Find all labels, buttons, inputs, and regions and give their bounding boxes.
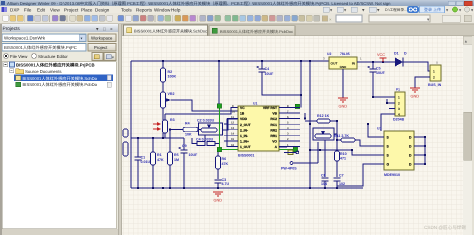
- svg-text:47K: 47K: [157, 158, 164, 162]
- svg-text:C2 0.033U: C2 0.033U: [197, 119, 215, 123]
- svg-text:View: View: [50, 7, 61, 12]
- svg-text:GND: GND: [214, 199, 223, 203]
- svg-text:R2: R2: [168, 70, 173, 74]
- wire VR3 left drop: [324, 140, 326, 177]
- wire green net horizontal: [220, 149, 296, 151]
- svg-text:Tools: Tools: [121, 7, 132, 12]
- svg-text:C9: C9: [182, 144, 187, 148]
- svg-text:100K: 100K: [168, 75, 177, 79]
- wire U3 drain bus vertical: [424, 137, 426, 164]
- svg-text:File: File: [24, 7, 32, 12]
- svg-text:10UF: 10UF: [265, 72, 275, 76]
- svg-text:Design: Design: [95, 7, 110, 12]
- node green marker top-left: [217, 104, 222, 109]
- svg-text:47K: 47K: [222, 162, 229, 166]
- capacitor C4 polarized: [261, 61, 263, 69]
- svg-text:D204B: D204B: [393, 118, 405, 122]
- svg-text:登录 上传: 登录 上传: [424, 7, 441, 12]
- wire U2 IN to diode: [357, 61, 395, 63]
- svg-text:3: 3: [398, 107, 400, 111]
- svg-text:R3: R3: [170, 118, 175, 122]
- svg-text:VO: VO: [272, 139, 277, 143]
- svg-text:R11 2.7K: R11 2.7K: [334, 134, 349, 138]
- svg-text:VR2: VR2: [168, 92, 175, 96]
- wire bottom GND rail: [131, 187, 363, 189]
- potentiometer VR3: [313, 128, 334, 140]
- wire J1 pin2 to ground: [415, 77, 430, 88]
- svg-text:GND: GND: [339, 105, 348, 109]
- svg-text:BISS0001人体红外感应开关模块.PrjPC: BISS0001人体红外感应开关模块.PrjPC: [4, 45, 77, 50]
- resistor R6: [216, 156, 221, 169]
- svg-text:Project: Project: [94, 45, 108, 50]
- U1 right pin stubs with numbers: [279, 107, 300, 109]
- wire feed to green node: [218, 61, 220, 104]
- connector P1 D204B: [395, 92, 405, 116]
- wire U2 GND down: [342, 69, 344, 98]
- component body clipped at left edge (upper): [123, 129, 128, 137]
- wire P1 pin2: [387, 99, 395, 103]
- svg-text:C8: C8: [321, 174, 326, 178]
- svg-text:12: 12: [231, 121, 235, 125]
- resistor R2: [162, 61, 164, 68]
- svg-text:Project: Project: [64, 7, 79, 12]
- svg-text:Source Documents: Source Documents: [25, 69, 62, 74]
- svg-text:16: 16: [231, 143, 235, 147]
- svg-text:102: 102: [339, 182, 345, 186]
- capacitor C3: [215, 180, 222, 183]
- wire VR2 bottom down: [162, 108, 164, 138]
- capacitor C9 polarized: [181, 150, 188, 153]
- resistor R10: [335, 151, 340, 161]
- node green marker top-right: [295, 104, 300, 109]
- svg-text:P1: P1: [396, 88, 400, 92]
- svg-text:VDD: VDD: [240, 117, 248, 121]
- node green marker bottom-left: [217, 147, 222, 152]
- svg-text:G: G: [387, 162, 390, 166]
- svg-text:10UF: 10UF: [376, 71, 386, 75]
- U1 left pin feeder verticals: [224, 119, 238, 147]
- svg-text:Window: Window: [154, 7, 171, 12]
- svg-text:Reports: Reports: [136, 7, 153, 12]
- svg-text:11: 11: [231, 115, 234, 119]
- svg-text:Place: Place: [81, 7, 93, 12]
- svg-text:Altium Designer Winter 09 - D:: Altium Designer Winter 09 - D:\2013.08中文…: [7, 1, 391, 6]
- wire U3 G pin to ground rail: [337, 164, 384, 188]
- transistor array U3 MDE9010: [384, 131, 414, 170]
- svg-text:▾: ▾: [112, 56, 114, 60]
- ground GND under J1: [410, 88, 420, 92]
- svg-text:RC1: RC1: [270, 123, 277, 127]
- svg-text:MDE9010: MDE9010: [384, 173, 400, 177]
- wire PW to x318 drop: [293, 142, 318, 163]
- resistor R5: [168, 152, 173, 165]
- svg-text:2: 2: [398, 101, 400, 105]
- svg-text:BISS0001人体红外感应开关模块.PrjPCB: BISS0001人体红外感应开关模块.PrjPCB: [16, 63, 95, 68]
- svg-text:RC2: RC2: [270, 117, 277, 121]
- wire U3 D pins right: [414, 136, 425, 138]
- svg-text:R12 1K: R12 1K: [317, 114, 330, 118]
- svg-text:1_IN+: 1_IN+: [240, 139, 249, 143]
- wire R3 bottom: [164, 133, 166, 138]
- svg-text:R10: R10: [340, 152, 347, 156]
- svg-text:D:\工程目录…: D:\工程目录…: [385, 8, 408, 12]
- svg-text:File View: File View: [10, 54, 28, 59]
- node dots right pins: [300, 94, 302, 96]
- wire top VCC rail: [131, 60, 329, 62]
- svg-text:R6: R6: [222, 157, 227, 161]
- svg-text:U1: U1: [253, 102, 257, 106]
- wire VR2 wiper to U1 pin 10: [171, 100, 238, 111]
- svg-text:×: ×: [110, 27, 113, 32]
- svg-text:BISS0001人体红外感应开关模块.SchDoc: BISS0001人体红外感应开关模块.SchDoc: [134, 29, 207, 34]
- svg-text:VB: VB: [272, 112, 277, 116]
- connector PW-4P0S: [279, 146, 287, 148]
- svg-text:10: 10: [232, 110, 236, 114]
- svg-text:BISS0001人体红外感应开关模块.SchDo: BISS0001人体红外感应开关模块.SchDo: [23, 76, 98, 81]
- svg-text:OUT: OUT: [331, 62, 338, 66]
- ground GND bottom center: [213, 192, 223, 196]
- svg-text:Help: Help: [171, 7, 181, 12]
- power port VCC: [380, 58, 387, 62]
- svg-text:U2: U2: [327, 52, 331, 56]
- svg-text:1: 1: [433, 70, 435, 74]
- svg-text:Workspace1.DsnWrk: Workspace1.DsnWrk: [4, 36, 46, 41]
- node junction dots on rails: [162, 60, 164, 62]
- svg-text:BISS0001人体红外感应开关模块.PcbDoc: BISS0001人体红外感应开关模块.PcbDoc: [220, 29, 293, 34]
- svg-text:14: 14: [231, 132, 235, 136]
- svg-text:1_IN-: 1_IN-: [240, 134, 248, 138]
- wire cluster links: [192, 119, 238, 144]
- wire vertical x305: [304, 113, 306, 119]
- wire R4 leads: [170, 129, 202, 131]
- svg-text:78L05: 78L05: [340, 52, 350, 56]
- svg-text:Projects: Projects: [3, 26, 21, 32]
- regulator U2 78L05: [329, 57, 357, 69]
- svg-text:104: 104: [321, 182, 327, 186]
- svg-text:B: B: [436, 61, 438, 65]
- svg-text:VRF RST: VRF RST: [263, 106, 277, 110]
- svg-text:Edit: Edit: [37, 7, 46, 12]
- svg-text:4: 4: [398, 112, 400, 116]
- svg-text:R1: R1: [157, 153, 162, 157]
- svg-text:BISS0001: BISS0001: [238, 154, 254, 158]
- svg-text:BISS0001人体红外感应开关模块.PcbDo: BISS0001人体红外感应开关模块.PcbDo: [23, 82, 98, 87]
- wire P1 pin4 down: [381, 114, 395, 131]
- svg-text:VC: VC: [240, 106, 245, 110]
- svg-text:Workspace: Workspace: [91, 36, 113, 41]
- svg-text:D: D: [404, 52, 407, 56]
- svg-text:GND: GND: [340, 65, 348, 69]
- svg-text:□: □: [103, 27, 106, 32]
- wire vertical x301: [300, 61, 302, 108]
- svg-text:1M: 1M: [174, 158, 179, 162]
- red probe arrow 1: [153, 123, 160, 125]
- svg-text:2_OUT: 2_OUT: [240, 123, 251, 127]
- svg-text:C1: C1: [141, 156, 146, 160]
- capacitor C5 polarized: [372, 62, 374, 69]
- svg-text:1B: 1B: [240, 112, 245, 116]
- capacitor C1: [135, 157, 142, 160]
- svg-text:BUS_IN: BUS_IN: [428, 83, 442, 87]
- connector J1 BUS_IN: [430, 65, 441, 81]
- svg-text:×: ×: [329, 17, 332, 22]
- svg-text:C5: C5: [376, 67, 381, 71]
- svg-text:CSDN @匠心与焊锡: CSDN @匠心与焊锡: [424, 225, 466, 230]
- wire P1 pin3 stub: [389, 108, 395, 110]
- svg-text:VCC: VCC: [377, 53, 385, 57]
- svg-text:1_OUT: 1_OUT: [240, 145, 251, 149]
- potentiometer VR2: [162, 82, 164, 92]
- svg-text:DXP: DXP: [10, 7, 19, 12]
- red probe arrow 2: [153, 128, 160, 130]
- svg-text:R4: R4: [185, 122, 190, 126]
- svg-text:471: 471: [340, 157, 346, 161]
- diode D1: [395, 58, 403, 67]
- svg-text:PW-4P0S: PW-4P0S: [281, 167, 297, 171]
- svg-text:C4: C4: [265, 67, 270, 71]
- svg-text:RR1: RR1: [270, 134, 277, 138]
- svg-text:D1: D1: [394, 52, 399, 56]
- node green marker bottom-right: [293, 147, 298, 152]
- svg-text:RR2: RR2: [270, 128, 277, 132]
- svg-text:4.7U: 4.7U: [222, 182, 230, 186]
- resistor R1: [151, 152, 156, 165]
- svg-text:C7: C7: [339, 174, 344, 178]
- ground GND under U2: [338, 98, 348, 102]
- svg-text:10K: 10K: [185, 133, 192, 137]
- wire U3 S pins left: [320, 124, 384, 155]
- wire R3 top to U1 pin 9: [165, 108, 238, 121]
- svg-text:2_IN-: 2_IN-: [240, 128, 248, 132]
- wire R5 top: [169, 130, 171, 153]
- wire P1 pin1: [373, 96, 395, 98]
- svg-text:2: 2: [433, 76, 435, 80]
- svg-text:Structure Editor: Structure Editor: [38, 54, 68, 59]
- resistor R3: [163, 120, 168, 133]
- component body clipped at left edge (lower): [123, 142, 128, 156]
- svg-text:▾: ▾: [81, 37, 83, 41]
- svg-text:1: 1: [398, 95, 400, 99]
- capacitor C8: [322, 178, 329, 181]
- svg-text:10UF: 10UF: [189, 153, 199, 157]
- wire left vertical rail: [130, 61, 132, 188]
- svg-text:U3: U3: [377, 127, 381, 131]
- svg-text:0.01U: 0.01U: [141, 160, 151, 164]
- wire diode to J1: [403, 62, 430, 71]
- svg-text:R5: R5: [174, 153, 179, 157]
- wire green net vertical: [219, 108, 221, 148]
- wire vertical x310: [310, 61, 320, 188]
- capacitor C7: [334, 178, 341, 181]
- wire horizontal net y138: [131, 137, 170, 139]
- svg-text:GND: GND: [411, 95, 420, 99]
- op-amp IC U1 BISS0001: [238, 106, 279, 151]
